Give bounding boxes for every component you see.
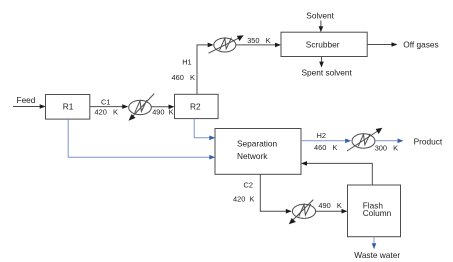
svg-text:Off gases: Off gases [403, 40, 438, 50]
wire solvent into scrubber [319, 21, 324, 33]
svg-text:Network: Network [237, 151, 268, 161]
svg-text:R1: R1 [63, 102, 74, 112]
svg-text:Product: Product [414, 136, 443, 146]
wire exchanger E1 to R2 [151, 105, 174, 110]
svg-text:Feed: Feed [17, 95, 36, 105]
wire exchanger E3 to product (blue) [375, 139, 404, 144]
svg-text:H2: H2 [317, 131, 326, 140]
svg-text:Spent solvent: Spent solvent [302, 68, 353, 78]
svg-text:Scrubber: Scrubber [306, 40, 340, 50]
svg-text:H1: H1 [182, 58, 191, 67]
wire feed into R1 [13, 104, 46, 109]
wire R2 up to exchanger E2 [197, 43, 214, 95]
reactor box R1 [46, 95, 90, 120]
heat exchanger E4 (C2 heater) [289, 200, 316, 225]
reactor box R2 [175, 94, 219, 118]
heat exchanger E1 (C1 heater) [129, 94, 155, 121]
wire separation network to exchanger E3 (blue) [301, 139, 351, 144]
separation network box [215, 129, 301, 175]
svg-text:350 K: 350 K [247, 36, 270, 45]
scrubber box [281, 32, 367, 56]
svg-text:420 K: 420 K [95, 108, 118, 117]
svg-text:300 K: 300 K [375, 143, 398, 152]
wire R2 recycle to separation network (blue) [194, 119, 215, 140]
svg-text:Column: Column [363, 208, 392, 218]
wire separation network down to exchanger E4 [260, 174, 292, 213]
svg-text:Separation: Separation [237, 139, 278, 149]
svg-text:Solvent: Solvent [306, 10, 334, 20]
svg-text:C1: C1 [101, 98, 110, 107]
wire R1 recycle to separation network (blue) [68, 119, 215, 159]
svg-text:C2: C2 [244, 181, 253, 190]
heat exchanger E3 (H2 cooler) [347, 128, 382, 151]
heat exchanger E2 (H1 cooler) [209, 35, 244, 53]
svg-text:490 K: 490 K [152, 107, 173, 116]
wire exchanger E2 to scrubber [236, 43, 281, 48]
flash column box [348, 185, 401, 237]
wire scrubber to off gases [367, 42, 397, 47]
svg-text:460 K: 460 K [172, 73, 195, 82]
wire scrubber to spent solvent [319, 57, 324, 68]
svg-text:460 K: 460 K [314, 143, 337, 152]
wire R1 to exchanger E1 [90, 104, 128, 109]
wire flash column to waste water (blue) [372, 237, 377, 250]
svg-text:Waste water: Waste water [354, 250, 400, 260]
svg-text:420 K: 420 K [233, 194, 254, 203]
svg-text:490 K: 490 K [318, 201, 341, 210]
wire flash column top back to separation network [301, 161, 372, 185]
svg-text:R2: R2 [190, 102, 201, 112]
wire exchanger E4 to flash column [316, 209, 348, 214]
